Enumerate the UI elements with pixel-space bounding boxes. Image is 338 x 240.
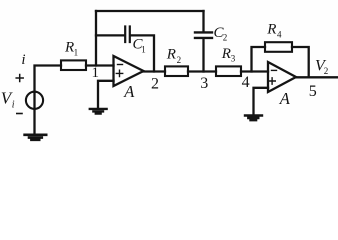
wire R1 to op-amp U1 inverting input [86,64,114,66]
wire R4 to node 5 [292,47,309,77]
svg-text:2: 2 [223,33,228,43]
svg-text:i: i [21,52,25,68]
label i [21,52,25,68]
capacitor C2 [195,32,212,38]
ground of U1 [90,109,107,114]
node 1 label [92,65,100,81]
svg-text:i: i [12,100,15,111]
svg-text:3: 3 [200,75,208,92]
label C1 [133,37,146,55]
wire C1 branch right down to node 2 [131,35,154,71]
node 3 label [200,75,208,92]
wire U1 output to R2 [144,70,166,72]
resistor R2 [165,66,188,76]
svg-text:R: R [166,47,176,63]
op-amp U2 [268,62,296,92]
resistor R3 [216,66,241,76]
wire U2 noninverting input to ground [254,88,269,115]
wire source to ground [33,109,35,134]
svg-text:4: 4 [242,74,250,91]
svg-text:1: 1 [74,48,79,58]
resistor R1 [61,60,86,70]
node 4 label [242,74,250,91]
label R1 [64,40,78,58]
Vi polarity - [17,113,22,115]
wire C1 branch left [96,34,124,36]
label R2 [166,47,181,65]
wire node 4 up to R4 [252,47,266,72]
svg-text:A: A [279,89,291,108]
label R4 [266,22,282,40]
svg-text:1: 1 [141,44,146,54]
label C2 [214,25,228,43]
svg-text:2: 2 [324,66,329,76]
label V2 [315,57,328,76]
svg-text:1: 1 [92,65,100,81]
wire U2 output to V2 [296,76,337,78]
wire node 3 up to C2 [202,39,204,71]
svg-text:A: A [123,82,135,101]
ground of source Vi [25,135,47,140]
wire top rail node1 to C2 [96,10,204,12]
wire input corner from source to R1 [35,66,62,93]
op-amp U1 [114,56,144,86]
svg-text:2: 2 [151,75,159,92]
wire R2 to R3 [188,70,216,72]
label R3 [221,46,236,64]
wire U1 noninverting input to ground [98,81,114,108]
wire node 1 up to top rail [95,11,97,66]
ground of U2 [245,116,262,121]
wire R3 to op-amp U2 inverting input [241,70,268,72]
label A of U1 [123,82,135,101]
svg-text:R: R [266,22,276,38]
svg-text:2: 2 [177,55,182,65]
wire C2 up to top rail [202,11,204,31]
label Vi [1,89,15,111]
svg-text:5: 5 [309,83,317,100]
svg-text:R: R [221,46,231,62]
label A of U2 [279,89,291,108]
node 5 label [309,83,317,100]
svg-text:4: 4 [277,30,282,40]
capacitor C1 [125,27,130,43]
node 2 label [151,75,159,92]
svg-text:3: 3 [231,54,236,64]
Vi polarity + [16,75,23,82]
resistor R4 [265,42,292,52]
voltage source Vi [26,92,43,109]
